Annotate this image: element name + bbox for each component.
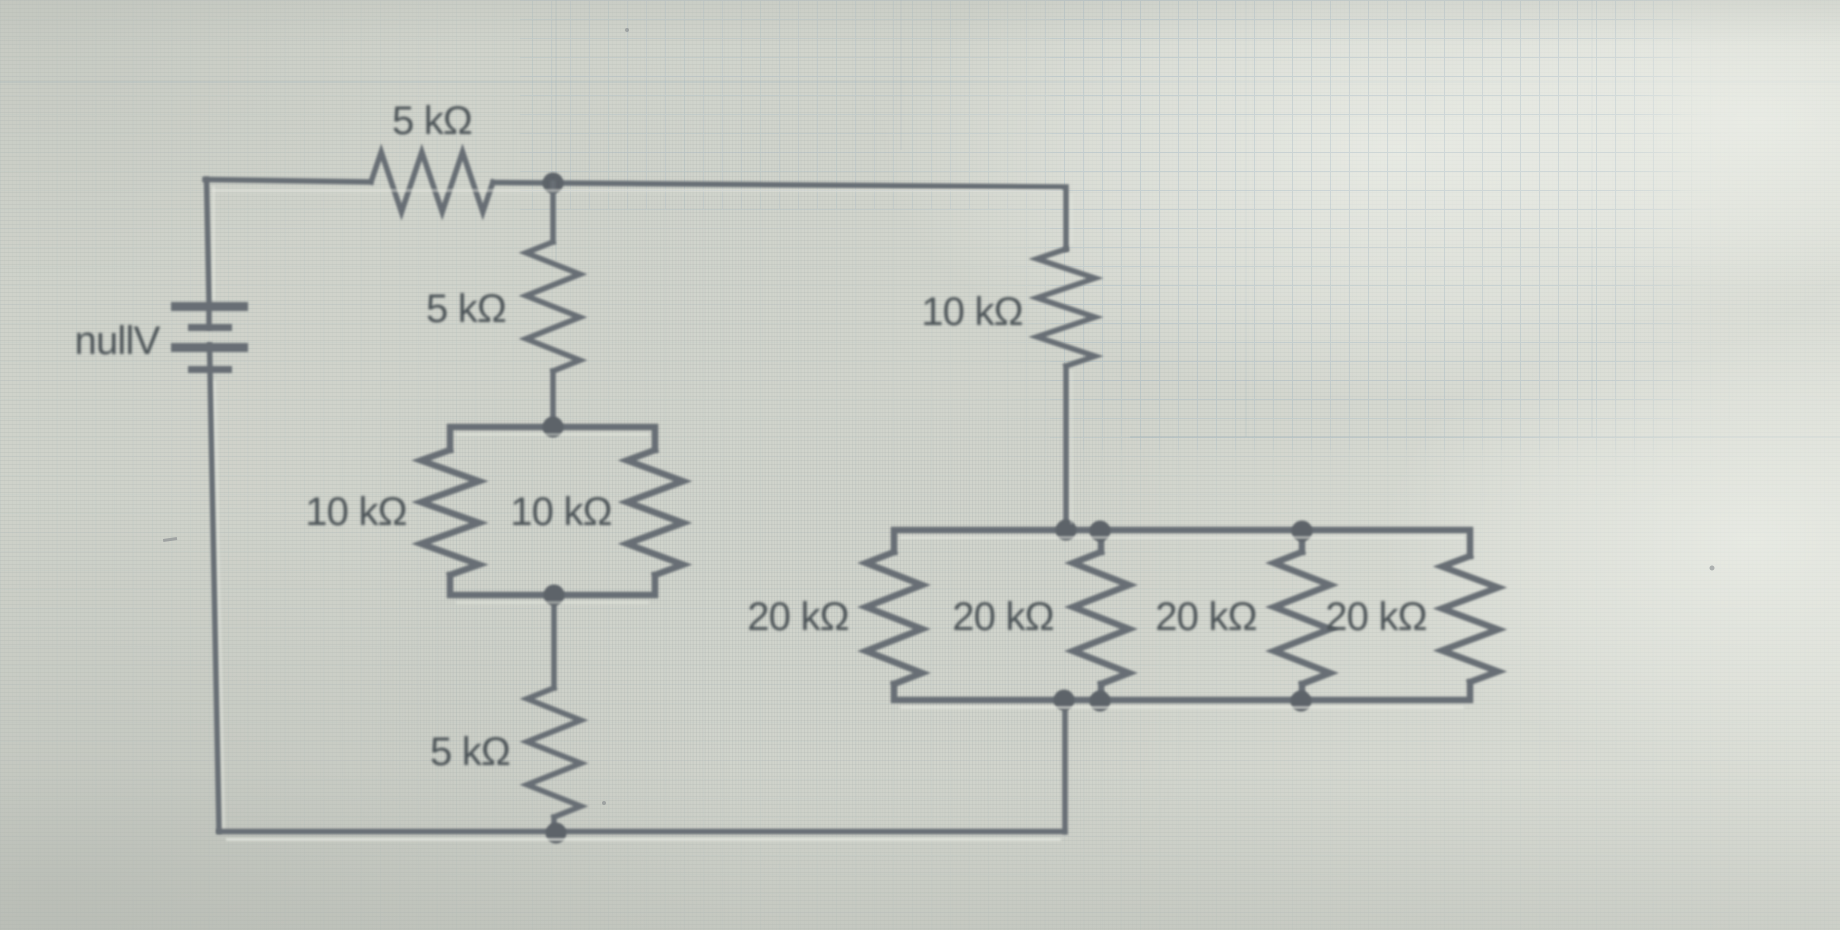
resistor R2 5 kOhm (vertical)	[526, 242, 580, 371]
wire top right segment with corner	[493, 183, 1066, 250]
wire node C down to R5	[551, 595, 557, 688]
node E (top rail left junction)	[1056, 520, 1077, 541]
resistor R4 10 kOhm (right of parallel pair)	[627, 450, 683, 575]
wire top rail of 20k network	[894, 530, 1470, 556]
svg-text:10 kΩ: 10 kΩ	[921, 290, 1023, 334]
wire bottom rail of 20k network	[894, 682, 1470, 700]
wire left vertical upper (battery top lead)	[207, 179, 210, 327]
svg-text:5 kΩ: 5 kΩ	[392, 99, 472, 143]
wire R6 down to top rail	[1063, 366, 1069, 530]
resistor R7 20 kOhm	[866, 552, 922, 684]
svg-text:5 kΩ: 5 kΩ	[430, 730, 510, 774]
wire bottom rail to bottom wire connector	[1062, 700, 1068, 832]
svg-text:20 kΩ: 20 kΩ	[1155, 595, 1257, 639]
resistor R3 10 kOhm (left of parallel pair)	[421, 450, 479, 575]
resistor R9 20 kOhm	[1274, 552, 1330, 684]
svg-text:20 kΩ: 20 kΩ	[747, 595, 849, 639]
resistor R1 5 kOhm (top horizontal)	[371, 152, 493, 212]
wire R8 top lead	[1098, 530, 1105, 552]
node F (top rail R8 junction)	[1090, 521, 1111, 542]
wire R9 top lead	[1299, 530, 1306, 552]
node D (bottom wire junction)	[546, 823, 567, 844]
node A (junction top)	[543, 173, 564, 194]
resistor R6 10 kOhm (right branch vertical)	[1037, 249, 1095, 366]
wire top left segment	[205, 180, 371, 183]
resistor R8 20 kOhm	[1073, 552, 1129, 684]
wire R5 to bottom wire	[551, 817, 557, 833]
wire parallel bottom bus	[450, 575, 655, 595]
resistor R10 20 kOhm	[1442, 556, 1498, 682]
svg-text:20 kΩ: 20 kΩ	[952, 595, 1054, 639]
wire R8 bottom lead	[1098, 684, 1105, 700]
wire R2 to node B	[550, 371, 556, 427]
node J (bottom rail R9 junction)	[1291, 691, 1312, 712]
svg-text:10 kΩ: 10 kΩ	[510, 490, 612, 534]
node C (below parallel pair)	[544, 585, 565, 606]
wire node A down to R2	[550, 183, 556, 242]
svg-text:10 kΩ: 10 kΩ	[305, 490, 407, 534]
wire bottom	[219, 829, 1065, 835]
resistor R5 5 kOhm (bottom vertical)	[527, 688, 581, 817]
node H (bottom rail left junction)	[1054, 690, 1075, 711]
svg-text:nullV: nullV	[75, 319, 161, 363]
node G (top rail R9 junction)	[1292, 521, 1313, 542]
wire left vertical lower (battery bottom lead)	[210, 345, 220, 831]
battery V1 plates	[171, 302, 248, 311]
svg-text:5 kΩ: 5 kΩ	[426, 287, 506, 331]
wire R9 bottom lead	[1299, 684, 1306, 700]
node I (bottom rail R8 junction)	[1090, 691, 1111, 712]
wire parallel top bus	[450, 427, 655, 450]
node B (above parallel pair)	[543, 417, 564, 438]
svg-text:20 kΩ: 20 kΩ	[1325, 595, 1427, 639]
